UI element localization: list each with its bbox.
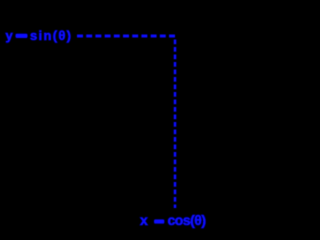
svg-text:x: x [140, 212, 148, 228]
wire: dashed horizontal projection line [77, 35, 177, 38]
equals sign (top, merged bar) [16, 34, 28, 38]
wire: dashed vertical projection line [174, 40, 177, 209]
svg-text:y: y [6, 28, 14, 43]
equals sign (bottom, merged bar) [154, 219, 164, 223]
svg-text:cos(θ): cos(θ) [168, 212, 207, 228]
svg-text:sin(θ): sin(θ) [30, 28, 71, 43]
